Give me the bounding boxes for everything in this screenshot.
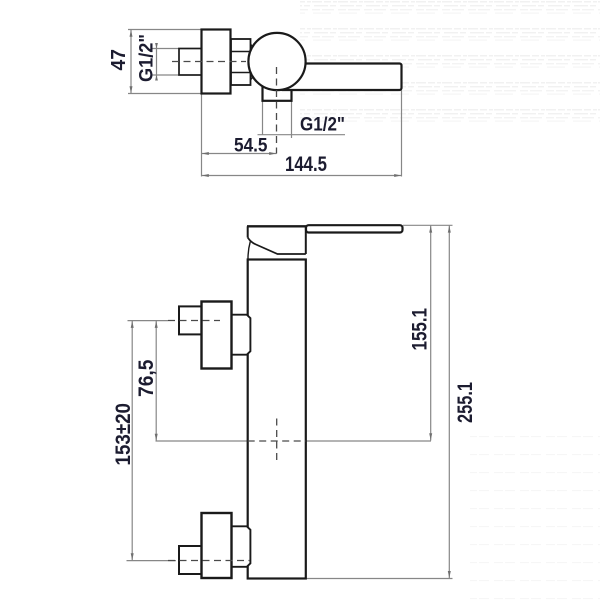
svg-text:144.5: 144.5 [285,153,327,176]
svg-text:54.5: 54.5 [234,135,268,156]
svg-text:G1/2": G1/2" [300,114,345,136]
svg-text:G1/2": G1/2" [136,34,158,82]
svg-text:155.1: 155.1 [409,308,432,351]
svg-text:76,5: 76,5 [135,359,158,397]
svg-text:255.1: 255.1 [454,382,477,423]
svg-text:47: 47 [108,49,130,71]
svg-text:153±20: 153±20 [112,403,135,466]
